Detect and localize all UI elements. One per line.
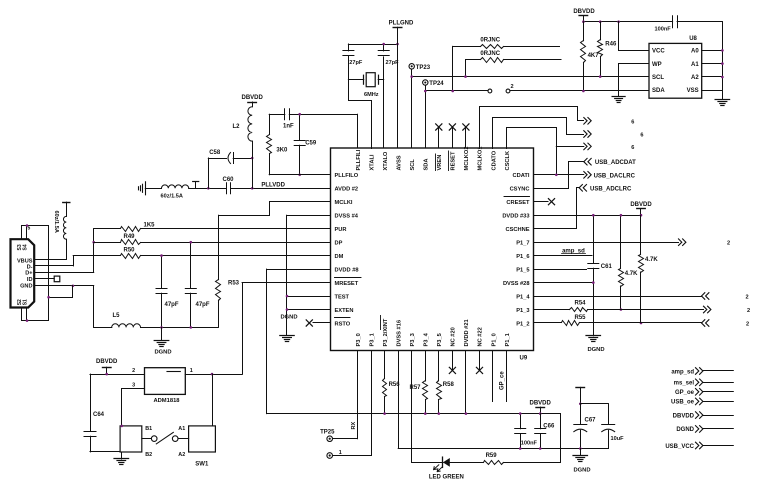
node P1_4 arrow [702,293,749,301]
resistor 4.7K second [639,215,659,323]
ground at SW1 [114,452,129,465]
svg-text:4.7K: 4.7K [625,271,638,277]
op-amp ADM1818 body [145,368,186,404]
svg-text:ID: ID [27,277,33,283]
svg-text:R54: R54 [575,300,587,306]
svg-text:USB_DACLRC: USB_DACLRC [594,173,636,179]
svg-text:VSS: VSS [687,88,699,94]
ground DGND at C67 [573,449,591,474]
svg-text:P1_6: P1_6 [516,254,529,260]
svg-text:TP25: TP25 [320,430,335,436]
svg-text:47pF: 47pF [196,302,210,308]
svg-text:DGND: DGND [573,468,590,474]
svg-text:DVDD #33: DVDD #33 [502,214,529,220]
op-amp U8 EEPROM body [649,36,702,98]
junction 4.7K2 bottom [640,322,643,325]
svg-text:DVSS #16: DVSS #16 [396,320,402,347]
svg-text:USB_ADCLRC: USB_ADCLRC [590,186,632,192]
wire VBUS [34,259,66,261]
svg-text:P1_0: P1_0 [491,333,497,346]
LED green diode [429,457,483,481]
svg-text:P1_7: P1_7 [516,241,529,247]
svg-text:DM: DM [335,254,344,260]
test point TP24 [423,80,445,87]
svg-text:A2: A2 [691,75,699,81]
node USB_ADCLRC arrow [579,185,632,193]
junction A1 [721,62,724,65]
junction DBVDD stub [640,214,643,217]
wire TEST net [287,296,331,298]
node CSCLK arrow [584,143,635,151]
resistor 1K5 [94,223,331,232]
svg-text:DP: DP [335,241,343,247]
junction 0RJNC-SDA [451,90,454,93]
inductor 60z/1.5A ferrite bead [145,185,188,200]
svg-text:P3_0: P3_0 [356,333,362,346]
node MCLKO1 arrow [584,118,635,126]
svg-text:GND: GND [20,284,32,290]
svg-text:3: 3 [132,382,135,388]
junction 4.7K1 bottom [620,308,623,311]
junction 47pF DP bottom [190,326,193,329]
capacitor C67 [574,404,596,449]
wire DVSS#4 net [287,215,331,335]
wire DBVDD rail U8 [583,21,672,23]
node jumper pin 2 [506,84,514,93]
node P1_7 arrow [679,239,731,247]
resistor R53 [216,215,240,327]
svg-text:CDATO: CDATO [491,150,497,170]
svg-text:C64: C64 [93,412,105,418]
svg-text:RESET: RESET [451,151,457,170]
junction R46 SCL [599,75,602,78]
wire DVDD#8 net [267,269,331,414]
power DBVDD at DVDD#33 [630,202,652,215]
ground DGND at DVSS#4 [280,315,298,342]
svg-text:0RJNC: 0RJNC [480,51,500,57]
wire P1_5 net [534,269,587,271]
node header USB_oe [671,398,733,406]
svg-text:USB_oe: USB_oe [671,400,695,406]
capacitor C47a 47pF [156,256,179,328]
power DBVDD above L2 [242,95,264,101]
svg-text:100nF: 100nF [655,27,672,33]
junction top wire XTALO [382,43,385,46]
svg-text:P3_5: P3_5 [437,333,443,346]
node RESET no-connect [449,124,455,148]
svg-text:LED GREEN: LED GREEN [429,475,464,481]
power PLLGND [389,20,414,148]
svg-text:10uF: 10uF [611,436,625,442]
svg-text:NC #22: NC #22 [478,327,484,346]
svg-text:DGND: DGND [154,350,171,356]
wire SW A1 drop [212,374,214,426]
svg-text:0RJNC: 0RJNC [480,37,500,43]
svg-text:P1_3: P1_3 [516,308,529,314]
junction 47pF DM bottom [160,326,163,329]
capacitor 100nF bottom [515,414,538,449]
wire crystal top [348,44,397,46]
wire ADM pin3 [122,382,145,425]
svg-text:D+: D+ [25,271,33,277]
resistor 3K0 [267,114,289,175]
svg-text:VREN: VREN [437,155,443,171]
svg-text:60z/1.5A: 60z/1.5A [161,194,183,200]
junction EXTEN tie [286,308,289,311]
junction SW B1 top [121,425,124,428]
junction DBVDD-ADM [105,373,108,376]
node header amp_sd [671,368,733,376]
svg-text:DGND: DGND [280,315,297,321]
resistor R49 [94,234,331,245]
node USB pin labels [17,226,33,306]
svg-text:PUR: PUR [335,227,347,233]
svg-text:P1_2: P1_2 [516,321,529,327]
svg-text:ms_sel: ms_sel [674,381,695,387]
wire DVDD#21 net [465,351,467,414]
svg-text:R55: R55 [575,315,587,321]
node header DBVDD [673,412,734,420]
svg-text:DVSS #28: DVSS #28 [503,281,530,287]
svg-text:L2: L2 [233,124,241,130]
svg-text:DBVDD: DBVDD [96,359,118,365]
junction SCL-TP23 [410,75,413,78]
junction CSCLK-CDATI [555,174,558,177]
svg-text:PLLVDD: PLLVDD [261,182,285,188]
wire U8 right side [702,22,723,91]
node jumper pin 1 [488,89,492,93]
wire RSTO stub [306,320,330,326]
wire 0RJNC upper to SDA [452,46,454,91]
junction DVSS#28 tie [592,281,595,284]
node PLLVDD label [261,182,285,188]
junction DBVDD rail bottom [539,412,542,415]
wire U8 VCC [619,22,649,51]
svg-text:C66: C66 [543,424,555,430]
junction TEST tie [286,295,289,298]
node header ms_sel [674,379,734,387]
crystal X1 6MHz [348,73,383,98]
svg-text:R49: R49 [124,234,136,240]
svg-text:ADM1818: ADM1818 [153,398,180,404]
svg-text:AVSS: AVSS [396,155,402,170]
junction C58-L2 [251,157,254,160]
svg-text:MCLKI: MCLKI [335,200,353,206]
svg-text:6: 6 [631,119,634,125]
svg-text:CRESET: CRESET [506,200,530,206]
junction USB shield top [26,224,29,227]
resistor R46 [598,22,617,77]
wire USB shield loop [22,226,49,321]
resistor R59 [484,453,561,465]
capacitor C58 [208,150,252,189]
svg-text:DGND: DGND [587,347,604,353]
svg-text:RX: RX [351,421,357,429]
inductor 60z/1.5A USB ferrite [53,202,70,259]
wire SCL vertical [411,69,413,148]
junction ADM pin1 SW [211,373,214,376]
svg-text:U8: U8 [689,36,697,42]
wire PLLFILI net [357,114,359,148]
ground at U8 VSS [715,90,730,105]
resistor 4.7K first [619,215,639,309]
resistor R58 [437,351,455,414]
svg-text:D-: D- [27,264,33,270]
junction SDA-TP24 [424,90,427,93]
svg-text:B2: B2 [145,452,152,458]
capacitor C61 [588,215,613,336]
svg-text:2: 2 [747,308,750,314]
svg-text:2: 2 [727,241,730,247]
wire GND net [34,286,93,328]
ground DGND at C61 [586,336,605,354]
node header USB_VCC [665,442,733,450]
junction C66 bottom [539,447,542,450]
svg-text:MRESET: MRESET [335,281,359,287]
capacitor C60 [223,177,331,194]
svg-text:XTALO: XTALO [383,151,389,170]
svg-text:CDATI: CDATI [513,173,530,179]
wire DBVDD bottom rail [267,413,561,415]
node U9 right pin labels [502,173,530,327]
junction USB shield bottom [26,319,29,322]
svg-text:P1_1: P1_1 [505,333,511,346]
node P1_3 arrow [704,306,751,314]
svg-text:XTALI: XTALI [369,154,375,170]
svg-text:L5: L5 [113,313,121,319]
wire DVSS#28 net [534,282,594,284]
svg-text:R58: R58 [443,382,455,388]
capacitor 100nF U8 [655,16,723,33]
svg-text:1K5: 1K5 [144,223,156,229]
svg-text:SDA: SDA [424,158,430,170]
wire 10uF branch [580,403,608,405]
svg-text:DBVDD: DBVDD [573,9,595,15]
svg-text:P3_3: P3_3 [410,333,416,346]
svg-text:DGND: DGND [676,427,694,433]
capacitor 10uF [602,404,624,449]
junction 4.7K1 top [620,214,623,217]
svg-text:CSCHNE: CSCHNE [505,227,529,233]
svg-text:P3_2/XINT: P3_2/XINT [383,318,389,346]
node U9 left pin labels [335,173,362,327]
junction C67 top [579,403,582,406]
svg-text:GP_ce: GP_ce [499,371,505,390]
svg-text:U9: U9 [520,356,528,362]
connector USB body [11,239,35,307]
test point TP23 [409,64,431,71]
svg-text:amp_sd: amp_sd [671,369,694,375]
junction C61 top [592,214,595,217]
svg-text:2: 2 [746,294,749,300]
resistor 0RJNC lower [466,51,562,62]
wire MRESET net [242,283,330,375]
junction 47pF DM top [160,254,163,257]
svg-text:DBVDD: DBVDD [530,401,552,407]
svg-text:R46: R46 [605,42,617,48]
svg-text:TP24: TP24 [429,81,444,87]
svg-text:C60: C60 [223,177,235,183]
svg-text:RSTO: RSTO [335,321,351,327]
svg-text:GP_oe: GP_oe [675,390,695,396]
junction 47pF DP top [190,241,193,244]
node USB_DACLRC arrow [584,172,636,180]
wire P3_0 net [351,351,358,439]
node U8 pin labels [652,49,699,95]
svg-text:NC #20: NC #20 [451,327,457,346]
power DBVDD at ADM1818 [96,359,118,374]
svg-text:USB_ADCDAT: USB_ADCDAT [595,160,636,166]
svg-text:R50: R50 [124,247,136,253]
resistor 4K7 [581,22,600,91]
node U9 bottom pin labels [356,316,511,347]
junction rail R46 [599,20,602,23]
svg-text:PLLFILI: PLLFILI [356,149,362,170]
junction A2 [721,76,724,79]
svg-text:1: 1 [190,368,193,374]
wire XTALI net [349,57,372,149]
capacitor C66 [535,414,555,449]
svg-text:AVDD #2: AVDD #2 [335,187,359,193]
node NC#22 no-connect [476,351,482,374]
svg-text:CSYNC: CSYNC [510,187,530,193]
wire ADM pin2 [90,368,145,374]
node CDATO arrow [584,131,644,139]
capacitor 27pF right [378,44,399,66]
svg-text:TEST: TEST [335,294,350,300]
junction C67 bottom [579,447,582,450]
wire EXTEN net [287,309,331,311]
svg-text:A1: A1 [178,426,185,432]
wire C64 bottom [90,451,120,453]
svg-text:DBVDD: DBVDD [630,202,652,208]
capacitor 1nF [269,109,357,130]
capacitor 27pF left [343,44,363,66]
svg-text:DVDD #21: DVDD #21 [464,319,470,346]
wire rail to R59 [560,414,562,463]
wire P1_0 stub [492,351,494,402]
junction A0 [721,49,724,52]
svg-text:2: 2 [132,368,135,374]
wire CDATI net [534,174,584,176]
svg-text:P3_4: P3_4 [424,332,430,346]
junction DVDD#21 rail [465,412,468,415]
junction C59 top [298,113,301,116]
svg-text:5: 5 [28,226,31,232]
resistor R54 [534,300,704,311]
wire CSCHNE net [534,188,580,229]
junction L2 bottom [251,187,254,190]
svg-text:DBVDD: DBVDD [242,95,264,101]
wire PLLFILO net [269,174,330,176]
junction R58 rail [438,412,441,415]
wire D+ net [34,229,93,273]
node CRESET no-connect [534,199,555,205]
svg-text:2: 2 [511,84,514,90]
svg-text:SCL: SCL [652,75,664,81]
svg-text:WP: WP [652,62,662,68]
wire P1_7 net [534,242,679,244]
node header GP_oe [675,389,733,397]
wire P1_1 stub [499,351,506,402]
svg-text:C58: C58 [209,150,221,156]
svg-text:VCC: VCC [652,49,665,55]
node NC#20 no-connect [449,351,455,374]
capacitor C64 [84,374,105,452]
op-amp U9 codec IC body [331,148,534,362]
node PLLVDD tap [189,182,227,189]
junction C58 branch [207,187,210,190]
svg-text:C59: C59 [305,141,317,147]
svg-text:R59: R59 [486,453,498,459]
wire P1_6 net [534,255,593,257]
wire MCLKO1 net [480,107,584,149]
resistor R57 [410,351,428,414]
svg-text:DVDD #8: DVDD #8 [335,267,359,273]
wire CSCLK net [507,128,557,175]
svg-text:SW1: SW1 [195,461,209,467]
svg-text:R53: R53 [228,281,240,287]
wire DVDD#33 net [534,215,642,217]
junction rail 4K7 [582,20,585,23]
svg-text:1nF: 1nF [283,124,294,130]
svg-text:DBVDD: DBVDD [673,413,695,419]
junction 0RJNC-SCL [464,75,467,78]
node header DGND [676,426,733,434]
switch SW1 [120,426,215,468]
svg-text:100nF: 100nF [521,440,538,446]
wire XTALO net [383,57,385,148]
junction R56 rail [383,412,386,415]
svg-text:A0: A0 [691,49,699,55]
svg-text:SDA: SDA [652,88,665,94]
wire DVSS#16 net [398,351,608,449]
wire P1_4 net [534,296,702,298]
svg-text:P1_4: P1_4 [516,294,530,300]
wire SCL horizontal [412,76,649,78]
wire 0RJNC lower to SCL [465,60,467,77]
svg-text:A2: A2 [178,452,185,458]
svg-text:MCLKO1: MCLKO1 [478,146,484,170]
svg-text:C61: C61 [601,264,613,270]
svg-text:6MHz: 6MHz [364,92,379,98]
junction top wire AVSS [396,43,399,46]
node U9 top pin labels [356,146,511,170]
capacitor C59 [294,114,317,175]
junction shield tie [47,296,50,299]
svg-text:P1_5: P1_5 [516,267,529,273]
svg-text:4.7K: 4.7K [645,257,658,263]
node MCLKO2 no-connect [463,124,469,148]
wire SDA horizontal left [425,90,488,92]
svg-text:USB_VCC: USB_VCC [665,444,694,450]
svg-text:TP23: TP23 [416,65,431,71]
wire CSCLK arrow stub [556,146,584,148]
wire U8 WP to ground [619,64,649,97]
junction C59 bottom [298,174,301,177]
svg-text:27pF: 27pF [349,60,363,66]
svg-text:SCL: SCL [410,159,416,171]
node amp_sd label [562,249,586,255]
test point 1 [327,450,371,458]
svg-text:PLLGND: PLLGND [389,20,414,26]
svg-text:2: 2 [746,321,749,327]
svg-text:P3_1: P3_1 [369,333,375,346]
wire ID stub [34,276,60,282]
wire SDA horizontal right [510,90,649,92]
ground DGND at L5 [154,327,171,355]
resistor R50 [121,247,331,258]
